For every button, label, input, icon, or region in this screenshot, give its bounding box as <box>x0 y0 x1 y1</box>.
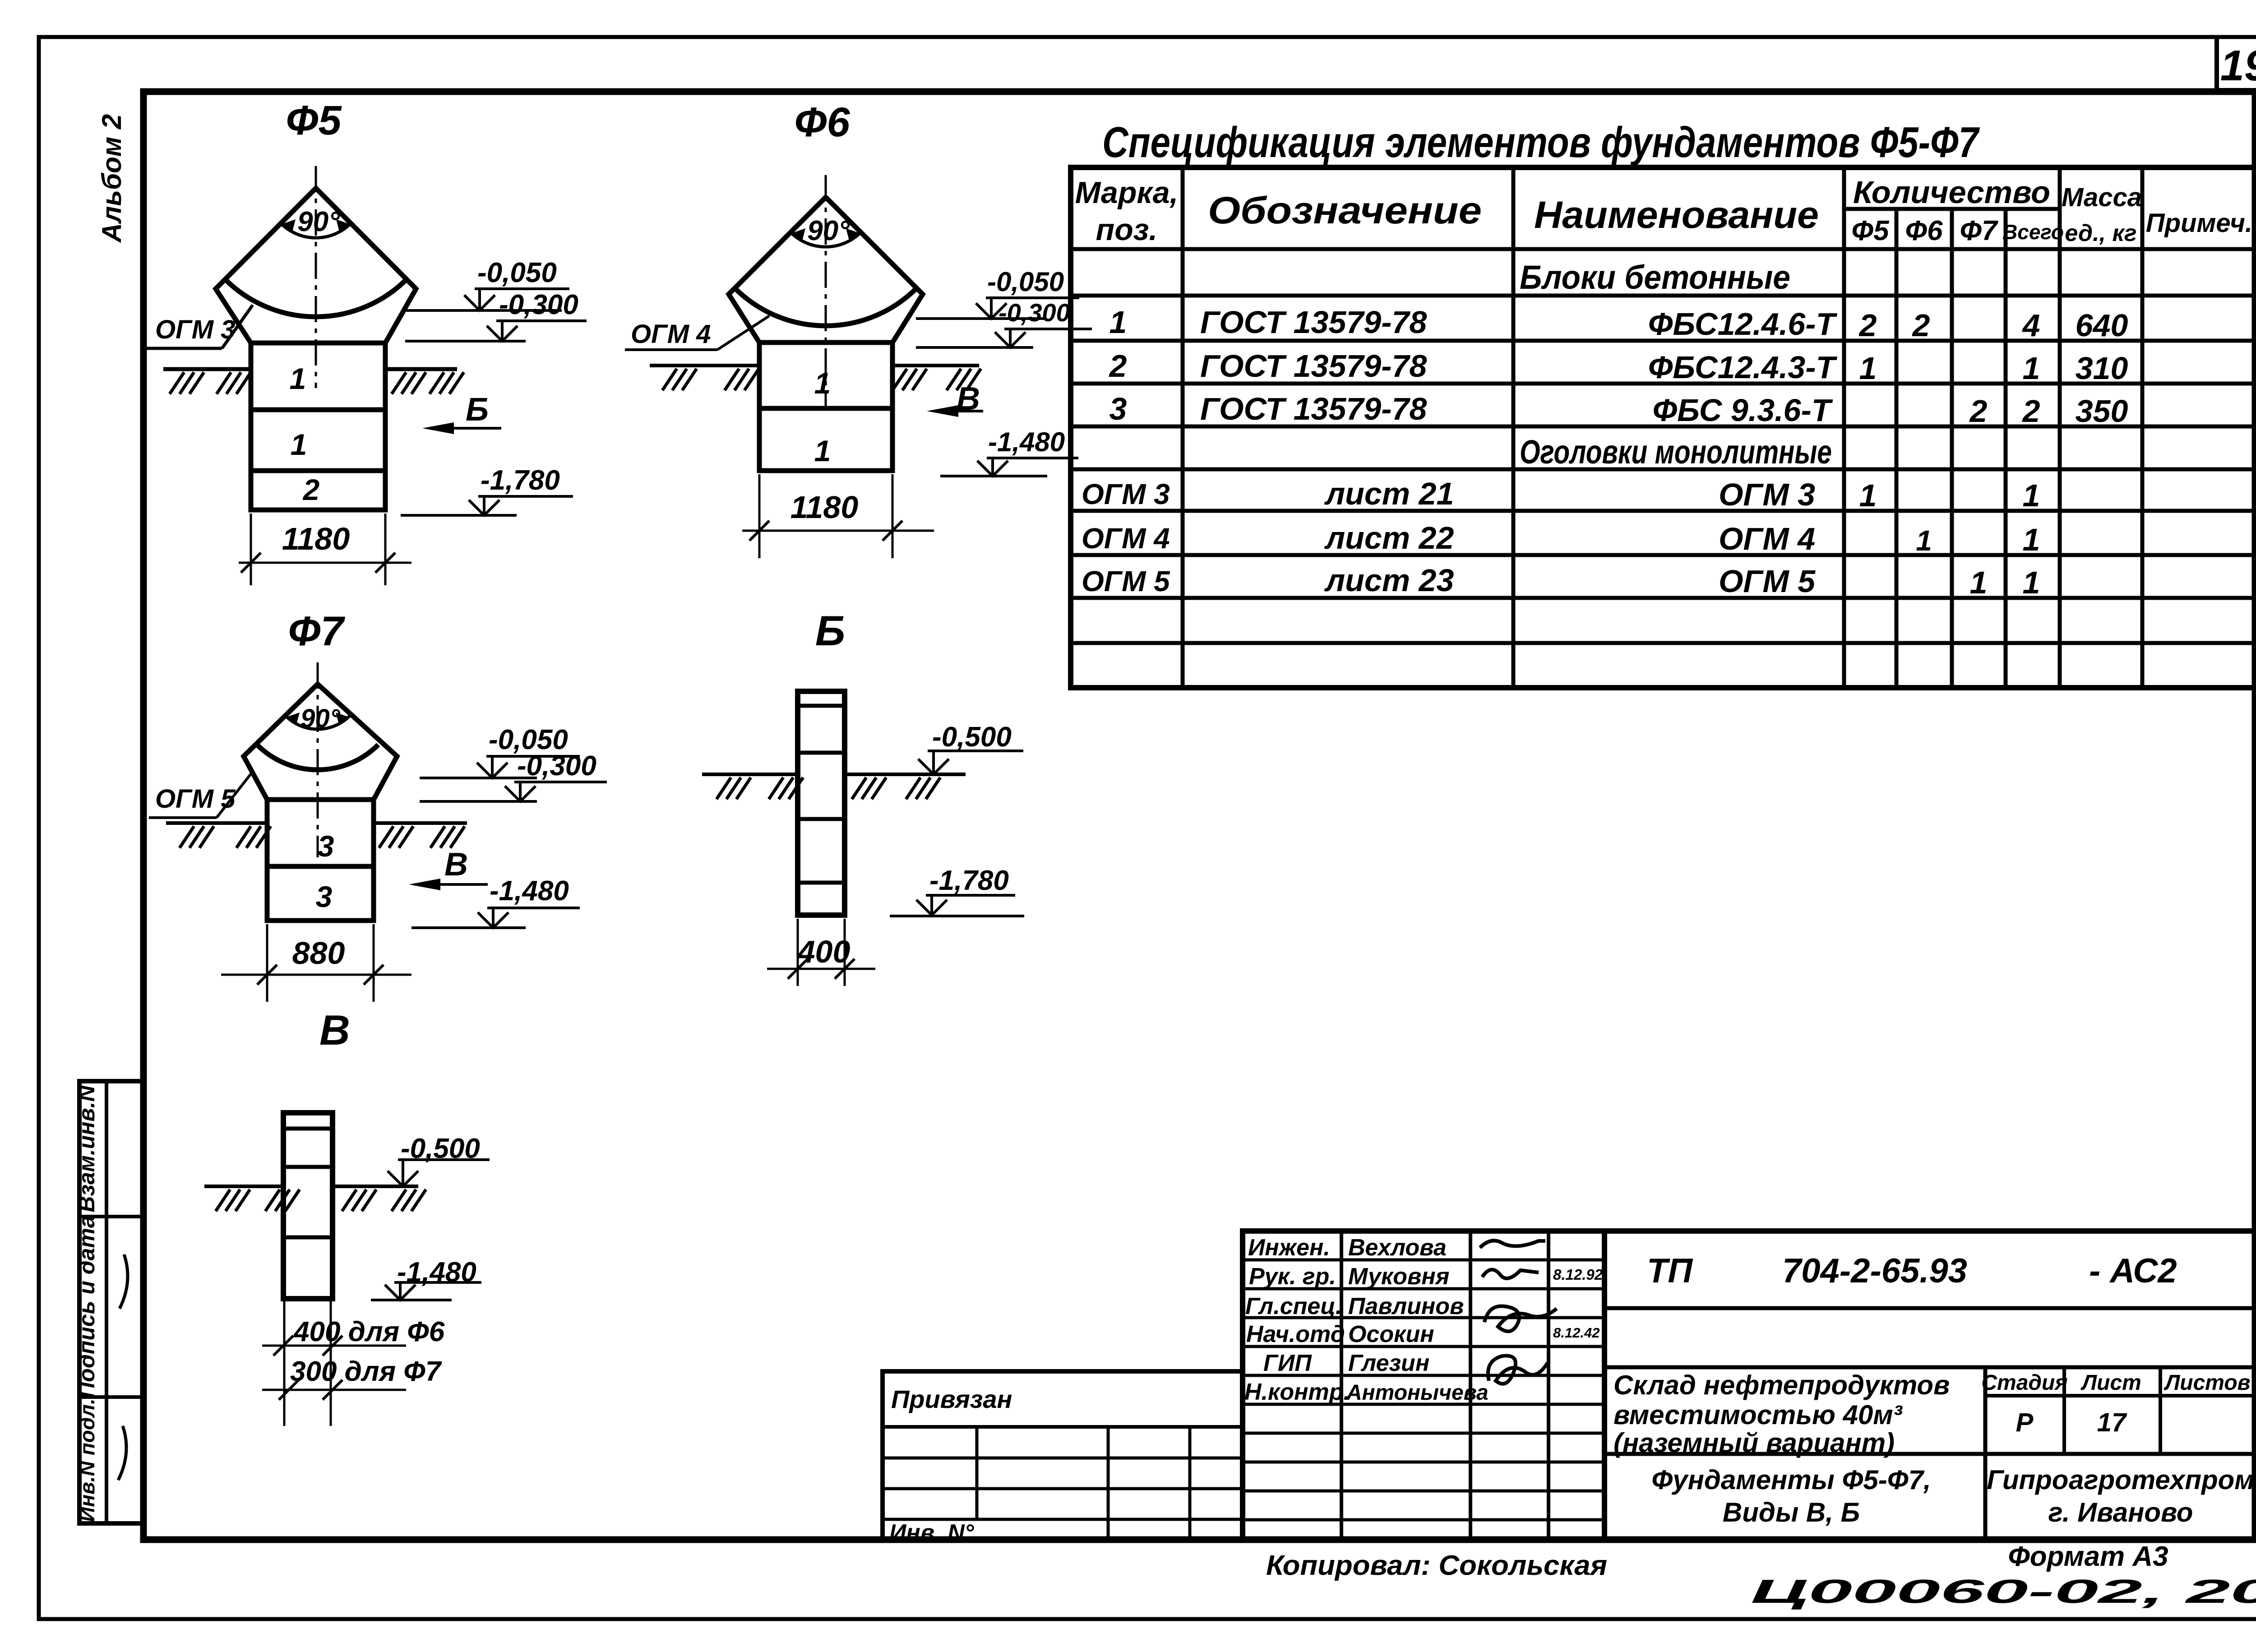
column section В <box>283 1113 333 1299</box>
svg-text:Ф5: Ф5 <box>1852 215 1890 246</box>
svg-text:ОГМ 4: ОГМ 4 <box>1082 522 1170 555</box>
svg-text:Антонычева: Антонычева <box>1346 1381 1489 1405</box>
svg-text:Масса: Масса <box>2062 183 2142 212</box>
column Ф7 <box>267 800 374 921</box>
svg-text:ГИП: ГИП <box>1263 1350 1312 1376</box>
horizontal lines <box>1844 207 2060 211</box>
svg-text:-0,050: -0,050 <box>477 257 557 288</box>
stage/sheet cells <box>1983 1367 1988 1540</box>
svg-text:Виды В, Б: Виды В, Б <box>1723 1497 1860 1527</box>
svg-text:Ф6: Ф6 <box>1905 215 1943 246</box>
svg-text:640: 640 <box>2076 308 2128 343</box>
svg-text:Марка,: Марка, <box>1075 176 1179 210</box>
svg-text:90°: 90° <box>807 215 850 246</box>
column section Б <box>798 691 845 915</box>
svg-text:ФБС12.4.3-Т: ФБС12.4.3-Т <box>1648 350 1838 385</box>
svg-text:-1,480: -1,480 <box>988 427 1065 457</box>
svg-text:ед., кг: ед., кг <box>2065 220 2136 246</box>
svg-text:2: 2 <box>1969 393 1988 429</box>
svg-text:Инв.N подл.: Инв.N подл. <box>75 1398 99 1522</box>
svg-text:Оголовки монолитные: Оголовки монолитные <box>1520 433 1832 471</box>
svg-text:ГОСТ 13579-78: ГОСТ 13579-78 <box>1200 305 1427 340</box>
left attach block <box>883 1371 1243 1540</box>
extension lines <box>283 1300 286 1426</box>
svg-text:ОГМ 5: ОГМ 5 <box>1082 565 1170 597</box>
ground line Б <box>702 773 798 776</box>
svg-text:704-2-65.93: 704-2-65.93 <box>1782 1252 1967 1290</box>
svg-text:Спецификация элементов фундаме: Спецификация элементов фундаментов Ф5-Ф7 <box>1102 118 1980 167</box>
svg-text:1: 1 <box>1859 351 1877 386</box>
svg-text:90°: 90° <box>300 704 341 733</box>
svg-text:лист 22: лист 22 <box>1324 520 1454 555</box>
head arc <box>735 288 917 326</box>
svg-text:17: 17 <box>2097 1408 2127 1437</box>
svg-text:Обозначение: Обозначение <box>1208 189 1482 231</box>
svg-text:Наименование: Наименование <box>1534 194 1819 236</box>
svg-text:Копировал: Сокольская: Копировал: Сокольская <box>1266 1550 1607 1581</box>
svg-text:Формат А3: Формат А3 <box>2008 1541 2168 1572</box>
vertical dividers <box>1181 167 1185 688</box>
ground line Ф7 <box>166 821 267 825</box>
svg-text:2: 2 <box>302 473 320 506</box>
head ОГМ4 outline <box>729 197 923 342</box>
svg-text:Стадия: Стадия <box>1981 1371 2067 1395</box>
90deg arc <box>791 232 861 247</box>
svg-text:3: 3 <box>1110 391 1127 426</box>
svg-text:2: 2 <box>1912 308 1930 343</box>
signature squiggles <box>1480 1240 1545 1248</box>
table frame <box>1071 167 2256 688</box>
svg-text:350: 350 <box>2076 393 2128 429</box>
ground line Ф6 <box>650 364 759 367</box>
head ОГМ5 outline <box>244 684 397 800</box>
centerline Ф6 <box>825 175 827 406</box>
svg-text:1180: 1180 <box>282 521 350 556</box>
svg-text:-1,480: -1,480 <box>490 875 569 907</box>
svg-text:880: 880 <box>292 935 345 971</box>
svg-text:Осокин: Осокин <box>1348 1321 1434 1347</box>
svg-text:Гипроагротехпром: Гипроагротехпром <box>1987 1465 2254 1495</box>
svg-text:Нач.отд: Нач.отд <box>1246 1321 1345 1347</box>
svg-text:Гл.спец.: Гл.спец. <box>1245 1293 1342 1319</box>
svg-text:Листов: Листов <box>2164 1371 2250 1395</box>
svg-text:Б: Б <box>466 392 489 428</box>
svg-text:лист 23: лист 23 <box>1324 563 1454 598</box>
svg-text:Фундаменты Ф5-Ф7,: Фундаменты Ф5-Ф7, <box>1651 1465 1931 1495</box>
svg-text:3: 3 <box>316 880 333 913</box>
svg-text:ГОСТ 13579-78: ГОСТ 13579-78 <box>1200 391 1427 426</box>
album label <box>97 114 127 244</box>
centerline Ф5 <box>315 166 317 388</box>
svg-text:-0,500: -0,500 <box>932 722 1012 753</box>
svg-text:2: 2 <box>1109 348 1127 384</box>
svg-text:ОГМ 5: ОГМ 5 <box>1719 564 1816 599</box>
svg-text:ОГМ 3: ОГМ 3 <box>1719 477 1815 512</box>
svg-text:1: 1 <box>291 428 307 461</box>
svg-text:Б: Б <box>815 607 846 654</box>
svg-text:400: 400 <box>797 934 851 969</box>
svg-text:Альбом 2: Альбом 2 <box>97 114 127 244</box>
svg-text:1: 1 <box>2023 522 2040 557</box>
svg-text:1180: 1180 <box>791 490 859 525</box>
left stamp column <box>74 1081 143 1523</box>
svg-text:-0,300: -0,300 <box>517 750 596 782</box>
svg-text:19: 19 <box>2220 42 2256 90</box>
head arc <box>257 745 379 770</box>
svg-text:1: 1 <box>2023 351 2040 386</box>
svg-text:2: 2 <box>2022 393 2040 429</box>
svg-text:1: 1 <box>290 362 306 395</box>
svg-text:-1,780: -1,780 <box>481 465 560 496</box>
svg-text:Склад нефтепродуктов: Склад нефтепродуктов <box>1613 1370 1950 1400</box>
svg-text:2: 2 <box>1858 308 1877 343</box>
svg-text:ОГМ 4: ОГМ 4 <box>631 319 711 349</box>
ground line В <box>204 1185 283 1188</box>
main title block frame <box>1604 1231 2255 1540</box>
svg-text:лист 21: лист 21 <box>1324 476 1454 511</box>
svg-text:г. Иваново: г. Иваново <box>2048 1497 2193 1527</box>
svg-text:ФБС 9.3.6-Т: ФБС 9.3.6-Т <box>1652 393 1833 428</box>
svg-text:Ф7: Ф7 <box>288 608 346 654</box>
svg-text:Ф7: Ф7 <box>1960 215 1998 246</box>
sheet number box <box>2217 37 2256 90</box>
svg-text:Вехлова: Вехлова <box>1348 1235 1447 1261</box>
column Ф5 <box>251 343 385 510</box>
centerline Ф7 <box>317 662 319 857</box>
svg-text:Подпись и дата: Подпись и дата <box>74 1215 99 1398</box>
svg-text:1: 1 <box>1970 565 1988 600</box>
svg-text:Ц00060-02, 20: Ц00060-02, 20 <box>1751 1573 2256 1610</box>
head ОГМ3 outline <box>216 188 416 343</box>
svg-text:Ф5: Ф5 <box>286 97 342 143</box>
svg-text:Инжен.: Инжен. <box>1248 1235 1330 1261</box>
svg-text:1: 1 <box>2023 478 2040 513</box>
svg-text:ОГМ 3: ОГМ 3 <box>155 315 235 344</box>
svg-text:-1,780: -1,780 <box>929 865 1009 896</box>
svg-text:Блоки бетонные: Блоки бетонные <box>1520 259 1790 296</box>
svg-text:В: В <box>444 847 468 883</box>
svg-text:Привязан: Привязан <box>891 1385 1012 1413</box>
svg-text:3: 3 <box>318 829 334 863</box>
svg-text:90°: 90° <box>297 206 340 237</box>
svg-text:Примеч.: Примеч. <box>2146 208 2252 238</box>
svg-text:ФБС12.4.6-Т: ФБС12.4.6-Т <box>1648 306 1838 342</box>
svg-text:300 для Ф7: 300 для Ф7 <box>290 1356 442 1387</box>
svg-text:Инв. N°: Инв. N° <box>889 1520 975 1546</box>
svg-text:1: 1 <box>1110 305 1127 340</box>
svg-text:ОГМ 3: ОГМ 3 <box>1082 478 1170 510</box>
svg-text:1: 1 <box>814 434 831 467</box>
svg-text:310: 310 <box>2076 351 2128 386</box>
svg-text:В: В <box>319 1006 350 1054</box>
svg-text:- АС2: - АС2 <box>2089 1252 2177 1290</box>
svg-text:1: 1 <box>814 366 831 400</box>
svg-text:Н.контр.: Н.контр. <box>1244 1379 1350 1405</box>
svg-text:Количество: Количество <box>1853 175 2050 210</box>
signature table frame <box>1243 1231 1604 1540</box>
svg-text:1: 1 <box>2023 565 2040 600</box>
svg-text:Глезин: Глезин <box>1348 1350 1429 1376</box>
svg-text:8.12.42: 8.12.42 <box>1553 1325 1600 1341</box>
svg-text:400 для Ф6: 400 для Ф6 <box>293 1316 445 1347</box>
svg-text:1: 1 <box>1859 478 1877 513</box>
90deg arc <box>281 223 351 238</box>
column Ф6 <box>759 342 892 471</box>
svg-text:-0,300: -0,300 <box>499 289 578 320</box>
svg-text:Взам.инв.N: Взам.инв.N <box>74 1085 99 1212</box>
90deg arc <box>286 716 349 729</box>
svg-text:4: 4 <box>2022 308 2040 343</box>
svg-text:Ф6: Ф6 <box>795 99 851 145</box>
svg-text:поз.: поз. <box>1096 213 1158 247</box>
svg-text:8.12.92: 8.12.92 <box>1553 1266 1603 1283</box>
head arc <box>225 279 407 317</box>
svg-text:ОГМ 4: ОГМ 4 <box>1719 521 1815 556</box>
svg-text:Рук. гр.: Рук. гр. <box>1249 1263 1336 1290</box>
svg-text:ГОСТ 13579-78: ГОСТ 13579-78 <box>1200 348 1427 384</box>
svg-text:ТП: ТП <box>1647 1252 1693 1290</box>
svg-text:Всего: Всего <box>2002 220 2064 244</box>
svg-text:-0,050: -0,050 <box>987 267 1064 297</box>
svg-text:Лист: Лист <box>2080 1371 2141 1395</box>
svg-text:1: 1 <box>1916 524 1932 557</box>
ground line Ф5 <box>163 367 251 371</box>
svg-text:-0,300: -0,300 <box>999 298 1070 327</box>
svg-text:Р: Р <box>2016 1408 2034 1437</box>
svg-text:вместимостью 40м³: вместимостью 40м³ <box>1613 1400 1903 1430</box>
svg-text:Муковня: Муковня <box>1348 1263 1449 1290</box>
svg-text:Павлинов: Павлинов <box>1348 1293 1464 1319</box>
